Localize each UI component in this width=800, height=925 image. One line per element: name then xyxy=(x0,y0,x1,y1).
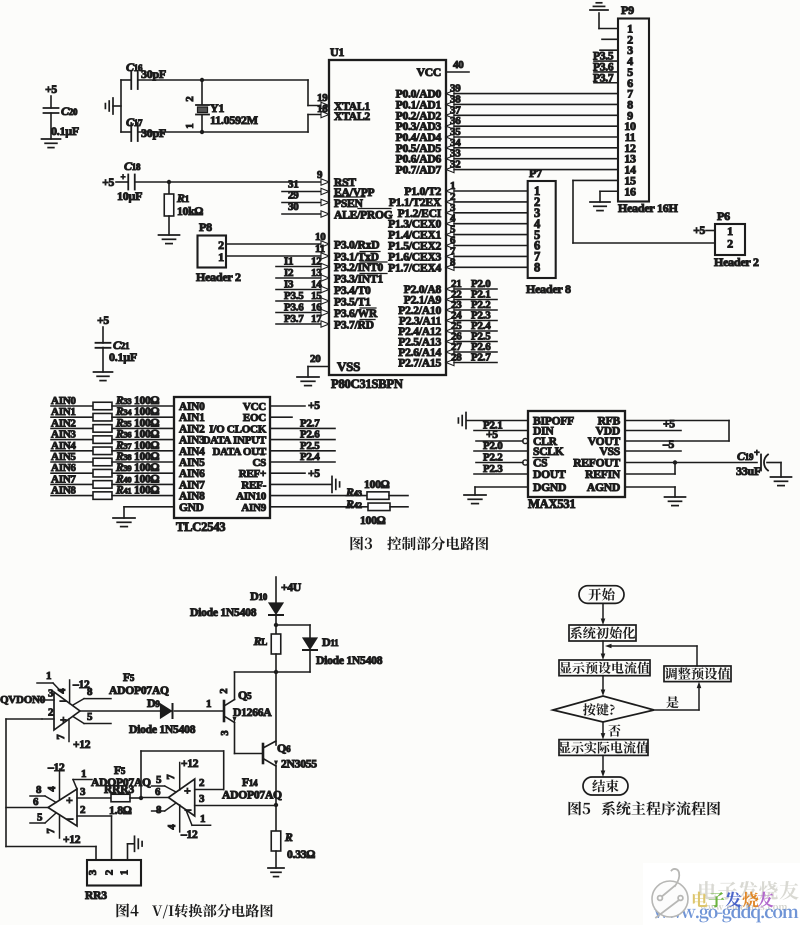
svg-text:+12: +12 xyxy=(181,758,199,770)
pin 20 VSS wire xyxy=(308,353,329,377)
svg-text:32: 32 xyxy=(450,159,461,171)
op-amp2 pin 1 xyxy=(73,768,92,789)
ground below P9 pin16 xyxy=(590,202,610,211)
svg-text:DATA OUT: DATA OUT xyxy=(212,446,266,458)
svg-text:P0.7/AD7: P0.7/AD7 xyxy=(396,164,442,177)
ground at BIPOFF xyxy=(458,413,466,429)
flowchart box adjust preset xyxy=(664,666,731,682)
wire VSS to -5 xyxy=(625,439,681,451)
ground below AGND xyxy=(665,497,686,506)
wire P1.1 to P7 pin 2 xyxy=(389,191,528,209)
wire node P2.3 to DOUT xyxy=(474,463,528,475)
svg-text:VCC: VCC xyxy=(417,66,441,79)
wire BIPOFF to ground xyxy=(467,420,528,422)
header P6 xyxy=(714,209,759,269)
diode D10 1N5408 xyxy=(190,589,283,619)
wire P1.0 to P7 pin 1 xyxy=(404,180,527,198)
pin 18 XTAL2 xyxy=(317,103,370,123)
wire P9 pin16 to ground xyxy=(600,191,618,202)
connector RR3 xyxy=(85,860,141,902)
svg-text:R1: R1 xyxy=(176,191,190,205)
pin 19 XTAL1 xyxy=(317,92,370,113)
flowchart end terminator xyxy=(583,777,628,795)
op-amp2 pin 6 output xyxy=(6,796,48,808)
watermark blue url xyxy=(654,904,798,922)
ground below C21 xyxy=(94,372,113,381)
wire node P3.6 to P9 pin 5 xyxy=(593,61,618,73)
svg-text:P6: P6 xyxy=(717,209,730,223)
svg-text:12: 12 xyxy=(311,256,322,268)
svg-text:R37 100Ω: R37 100Ω xyxy=(115,440,160,452)
svg-text:TLC2543: TLC2543 xyxy=(176,520,225,534)
wire P2.7 node xyxy=(398,352,497,370)
header P7 8 pins xyxy=(526,166,571,296)
svg-text:+5: +5 xyxy=(97,315,109,327)
op-amp3 pin 6 xyxy=(141,786,168,798)
resistor R40 100ohm on AIN7 xyxy=(51,473,174,488)
wire P0.7 to P9 pin 14 xyxy=(396,159,618,177)
svg-text:30pF: 30pF xyxy=(141,67,166,81)
op-amp3 pin 2 label xyxy=(199,777,205,789)
U1 P3 port labels xyxy=(334,239,387,332)
svg-text:AIN5: AIN5 xyxy=(179,457,205,469)
svg-text:1: 1 xyxy=(206,698,211,710)
resistor R39 100ohm on AIN6 xyxy=(51,462,174,477)
resistor R34 100ohm on AIN1 xyxy=(51,406,174,421)
op-amp2 pin 8 xyxy=(30,784,56,802)
svg-text:+12: +12 xyxy=(63,834,81,846)
svg-text:10µF: 10µF xyxy=(117,189,142,203)
svg-text:30pF: 30pF xyxy=(141,126,166,140)
ground at RR3 pin1 xyxy=(135,836,143,851)
svg-text:2: 2 xyxy=(48,707,54,719)
wire P9 pin2 stub xyxy=(602,38,618,40)
svg-text:P2.7/A15: P2.7/A15 xyxy=(398,357,441,370)
capacitor C18 10uF xyxy=(116,159,142,203)
svg-text:AIN9: AIN9 xyxy=(241,502,266,514)
svg-text:2: 2 xyxy=(219,688,230,693)
svg-text:17: 17 xyxy=(311,313,322,325)
svg-text:6: 6 xyxy=(33,796,39,808)
flow branch no xyxy=(601,722,621,740)
flow arrow to end xyxy=(601,755,606,777)
svg-text:XTAL2: XTAL2 xyxy=(334,110,370,123)
svg-text:C20: C20 xyxy=(61,104,78,118)
svg-text:REFIN: REFIN xyxy=(585,468,621,481)
flowchart start terminator xyxy=(579,586,624,604)
svg-text:15: 15 xyxy=(311,290,322,302)
svg-text:9: 9 xyxy=(317,169,323,181)
svg-text:Diode 1N5408: Diode 1N5408 xyxy=(316,654,383,667)
svg-text:P3.7/RD: P3.7/RD xyxy=(334,319,374,332)
wire junction to D11 xyxy=(276,625,310,638)
svg-text:+5: +5 xyxy=(693,225,705,237)
wire node P2.0 to SCLK xyxy=(474,440,528,452)
svg-text:AIN6: AIN6 xyxy=(179,468,205,480)
svg-text:0.33Ω: 0.33Ω xyxy=(287,848,315,861)
svg-text:ADOP07AQ: ADOP07AQ xyxy=(109,684,169,697)
transistor Q5 D1266A xyxy=(219,672,272,754)
svg-text:4: 4 xyxy=(167,824,178,830)
resistor R36 100ohm on AIN3 xyxy=(51,429,174,444)
wire Q6 emitter down xyxy=(274,766,278,831)
svg-text:1: 1 xyxy=(46,670,51,682)
svg-text:–5: –5 xyxy=(662,439,675,451)
svg-text:D11: D11 xyxy=(322,635,339,649)
wire P2.3 node xyxy=(399,310,497,328)
wire P8-2 to P3.0 xyxy=(226,231,329,247)
transistor Q6 2N3055 xyxy=(263,741,317,771)
svg-text:I3: I3 xyxy=(284,279,294,291)
svg-text:11.0592M: 11.0592M xyxy=(210,113,258,127)
svg-text:VSS: VSS xyxy=(337,359,360,374)
header P8 xyxy=(196,220,241,284)
svg-text:U1: U1 xyxy=(330,45,344,59)
svg-text:Header 2: Header 2 xyxy=(714,255,759,269)
svg-text:C18: C18 xyxy=(124,159,141,173)
svg-text:13: 13 xyxy=(311,267,322,279)
resistor R38 100ohm on AIN5 xyxy=(51,451,174,466)
op-amp1 pin 2 input xyxy=(42,707,54,720)
wire node I2 to P3.3 xyxy=(276,267,329,281)
op-amp2 pin 2 xyxy=(77,804,112,860)
svg-text:ALE/PROG: ALE/PROG xyxy=(334,209,393,222)
wire D10 to junction xyxy=(274,616,278,634)
svg-text:P2.7: P2.7 xyxy=(471,352,491,364)
wire TLC to node P2.7 xyxy=(270,417,335,429)
svg-text:2: 2 xyxy=(80,804,86,816)
resistor R42 100ohm on AIN9 xyxy=(270,497,408,527)
svg-text:+12: +12 xyxy=(73,739,91,751)
svg-text:2: 2 xyxy=(199,777,205,789)
resistor R37 100ohm on AIN4 xyxy=(51,440,174,455)
wire P2.4 node xyxy=(398,320,497,338)
resistor RRR3 1.8ohm xyxy=(104,783,143,817)
power +5 label C21 xyxy=(97,315,109,327)
svg-text:P7: P7 xyxy=(529,166,542,180)
svg-text:R36 100Ω: R36 100Ω xyxy=(115,429,160,441)
svg-text:ADOP07AQ: ADOP07AQ xyxy=(222,789,282,802)
watermark background box xyxy=(643,863,800,925)
svg-text:33uF: 33uF xyxy=(736,464,761,478)
IC TLC2543 body xyxy=(174,397,270,534)
svg-text:Header 16H: Header 16H xyxy=(618,201,679,215)
svg-text:D1266A: D1266A xyxy=(233,706,272,719)
wire RFB to VOUT loop xyxy=(625,421,729,442)
op-amp F5 ADOP07AQ lower xyxy=(48,764,151,826)
svg-text:AIN8: AIN8 xyxy=(179,491,205,503)
wire node P3.6 to P3.6 xyxy=(276,302,329,316)
op-amp3 pin 1 xyxy=(186,810,211,825)
svg-text:DOUT: DOUT xyxy=(533,468,566,481)
svg-text:2N3055: 2N3055 xyxy=(281,758,317,771)
wire RL D11 junction xyxy=(235,651,311,745)
op-amp2 pin 5 xyxy=(30,812,56,824)
op-amp1 pin 4 -12 xyxy=(57,679,90,704)
svg-text:Q6: Q6 xyxy=(277,741,291,755)
svg-text:8: 8 xyxy=(36,784,42,796)
op-amp3 pin 8 xyxy=(152,803,176,816)
caption figure 5 xyxy=(568,801,720,815)
svg-text:I2: I2 xyxy=(284,267,294,279)
svg-text:I/O CLOCK: I/O CLOCK xyxy=(209,423,266,435)
wire +5 to P6 pin1 xyxy=(693,225,715,237)
wire P0.5 to P9 pin 12 xyxy=(396,137,618,155)
svg-text:0.1µF: 0.1µF xyxy=(51,124,79,138)
TLC2543 left pin labels xyxy=(179,401,205,514)
svg-text:4: 4 xyxy=(47,786,58,792)
op-amp1 pin 3 input xyxy=(0,688,54,707)
svg-text:16: 16 xyxy=(311,302,322,314)
svg-text:P1.7/CEX4: P1.7/CEX4 xyxy=(388,261,441,274)
svg-text:+4U: +4U xyxy=(281,581,302,594)
svg-text:3: 3 xyxy=(80,786,86,798)
wire VDD to +5 xyxy=(625,419,681,431)
svg-text:2: 2 xyxy=(184,96,196,102)
pin 29 PSEN xyxy=(282,190,365,211)
svg-text:P9: P9 xyxy=(621,3,634,17)
svg-text:C19: C19 xyxy=(737,449,754,463)
wire P9 pin3 stub xyxy=(600,49,618,51)
svg-text:3: 3 xyxy=(48,688,54,700)
wire P1.2 to P7 pin 3 xyxy=(398,202,528,220)
wire P0.1 to P9 pin 8 xyxy=(396,93,618,111)
watermark logo circle xyxy=(652,869,688,918)
flow loop from adjust xyxy=(696,646,698,666)
flow arrow init to display xyxy=(601,641,606,660)
svg-text:+: + xyxy=(184,784,191,798)
svg-text:29: 29 xyxy=(288,190,299,202)
resistor RL xyxy=(253,634,281,654)
svg-text:+5: +5 xyxy=(102,177,114,189)
svg-text:4: 4 xyxy=(57,688,68,694)
wire P0.6 to P9 pin 13 xyxy=(396,148,618,166)
svg-text:3: 3 xyxy=(199,793,205,805)
pin 30 ALE/PROG xyxy=(282,201,393,222)
svg-text:2: 2 xyxy=(727,237,733,251)
wire P0.4 to P9 pin 11 xyxy=(396,126,618,144)
svg-text:I1: I1 xyxy=(284,256,293,268)
wire P1.4 to P7 pin 5 xyxy=(388,224,528,242)
svg-text:100Ω: 100Ω xyxy=(364,478,390,491)
ground at TLC REF- xyxy=(332,476,340,492)
wire REFIN xyxy=(625,473,675,475)
flow arrow start to init xyxy=(601,603,606,625)
svg-text:Header 8: Header 8 xyxy=(526,282,571,296)
svg-text:AIN4: AIN4 xyxy=(179,446,205,458)
svg-text:P2.6: P2.6 xyxy=(300,429,320,441)
svg-text:CS: CS xyxy=(252,457,266,469)
op-amp3 pin 4 -12 xyxy=(167,805,198,841)
resistor R41 100ohm on AIN8 xyxy=(51,485,174,500)
svg-text:R38 100Ω: R38 100Ω xyxy=(115,451,160,463)
svg-text:3: 3 xyxy=(220,730,231,735)
svg-text:18: 18 xyxy=(317,103,328,115)
svg-text:R35 100Ω: R35 100Ω xyxy=(115,417,160,429)
capacitor C19 33uF xyxy=(736,448,781,478)
svg-text:AIN10: AIN10 xyxy=(236,491,267,503)
svg-text:P80C31SBPN: P80C31SBPN xyxy=(331,377,403,391)
svg-text:VCC: VCC xyxy=(243,401,266,413)
svg-text:R34 100Ω: R34 100Ω xyxy=(115,406,160,418)
ground below DGND xyxy=(464,495,486,504)
svg-text:R41 100Ω: R41 100Ω xyxy=(115,485,160,497)
svg-text:Header 2: Header 2 xyxy=(196,270,241,284)
wire P1.7 to P7 pin 8 xyxy=(388,256,528,274)
svg-text:EOC: EOC xyxy=(243,412,266,424)
resistor R 0.33ohm xyxy=(271,831,315,868)
wire P1.6 to P7 pin 7 xyxy=(388,245,528,263)
power +4U rail xyxy=(276,577,302,603)
svg-text:GND: GND xyxy=(179,502,204,514)
svg-text:P2.5: P2.5 xyxy=(300,440,320,452)
svg-text:5: 5 xyxy=(37,812,43,824)
svg-text:Diode 1N5408: Diode 1N5408 xyxy=(129,723,196,736)
wire AGND to ground xyxy=(625,487,675,497)
wire RR3 pin1 to ground xyxy=(128,844,135,860)
svg-text:QVDON0: QVDON0 xyxy=(0,694,46,706)
caption figure 4 xyxy=(116,903,272,918)
diode D11 1N5408 xyxy=(303,635,383,667)
wire P2.2 node xyxy=(398,299,497,317)
capacitor C20 0.1uF xyxy=(44,96,80,139)
IC U1 P80C31SBPN body xyxy=(329,45,446,391)
svg-text:+5: +5 xyxy=(308,400,320,412)
watermark ghost text xyxy=(699,881,799,900)
svg-text:30: 30 xyxy=(288,201,299,213)
svg-text:14: 14 xyxy=(311,279,322,291)
svg-text:100Ω: 100Ω xyxy=(360,514,386,527)
wire TLC REF+ to +5 xyxy=(270,468,320,480)
ground below C19 xyxy=(771,477,792,486)
crystal Y1 11.0592M xyxy=(184,78,258,134)
svg-text:1: 1 xyxy=(81,768,86,780)
svg-text:+5: +5 xyxy=(45,84,57,96)
power +5 at C18 xyxy=(102,172,125,189)
watermark colored text xyxy=(693,892,774,908)
resistor R33 100ohm on AIN0 xyxy=(51,395,174,410)
ground below R xyxy=(268,868,284,877)
wire xtal to pins xyxy=(308,80,329,132)
svg-text:P2.3: P2.3 xyxy=(483,463,503,475)
resistor R43 100ohm on AIN10 xyxy=(270,478,408,499)
svg-text:1: 1 xyxy=(200,813,205,825)
svg-text:40: 40 xyxy=(453,59,464,71)
svg-text:DGND: DGND xyxy=(533,481,566,494)
svg-text:1.8Ω: 1.8Ω xyxy=(109,804,132,817)
svg-text:3: 3 xyxy=(87,869,99,875)
svg-text:P2.4: P2.4 xyxy=(300,451,320,463)
header P9 16 pins xyxy=(618,3,679,215)
ground below R1 xyxy=(159,235,180,244)
wire op1 pin2 feedback xyxy=(6,719,96,860)
svg-text:8: 8 xyxy=(156,804,162,816)
svg-text:7: 7 xyxy=(56,734,67,739)
svg-text:RR3: RR3 xyxy=(85,889,107,902)
ground below VSS xyxy=(297,377,319,386)
capacitor C16 30pF xyxy=(121,60,308,89)
svg-text:P3.7: P3.7 xyxy=(593,72,614,84)
svg-text:1: 1 xyxy=(184,123,196,129)
svg-text:8: 8 xyxy=(450,256,456,268)
op-amp F5 ADOP07AQ upper xyxy=(54,671,169,730)
wire left xtal vertical xyxy=(113,80,121,132)
svg-text:R: R xyxy=(284,831,293,844)
wire node P3.5 to P9 pin 4 xyxy=(593,51,618,63)
svg-text:R42: R42 xyxy=(345,497,362,511)
ground top of P9 xyxy=(590,3,618,29)
wire P1.5 to P7 pin 6 xyxy=(388,235,528,253)
wire TLC to node P2.6 xyxy=(270,429,335,441)
wire node P3.5 to P3.5 xyxy=(276,290,329,304)
svg-text:–12: –12 xyxy=(47,762,65,774)
svg-text:6: 6 xyxy=(155,786,161,798)
svg-text:F14: F14 xyxy=(242,776,258,789)
op-amp2 pin 7 +12 xyxy=(46,815,81,846)
svg-text:1: 1 xyxy=(119,870,131,876)
op-amp3 pin 5 xyxy=(152,774,176,792)
svg-text:P2.0: P2.0 xyxy=(483,440,503,452)
wire DGND to ground xyxy=(475,487,528,495)
flow arrow display to decision xyxy=(601,676,606,696)
svg-text:7: 7 xyxy=(46,828,57,833)
svg-text:Q5: Q5 xyxy=(238,688,252,702)
wire node P3.7 to P3.7 xyxy=(276,313,329,327)
TLC2543 GND pin wire xyxy=(124,507,174,518)
wire node I1 to P3.2 xyxy=(276,256,329,270)
svg-text:+5: +5 xyxy=(308,468,320,480)
svg-text:DATA INPUT: DATA INPUT xyxy=(203,435,267,447)
watermark small gray url xyxy=(700,903,787,911)
wire TLC to node P2.4 xyxy=(270,451,335,463)
svg-text:P3.6: P3.6 xyxy=(284,302,304,314)
svg-text:AIN2: AIN2 xyxy=(179,423,205,435)
svg-text:+: + xyxy=(66,793,73,807)
wire Q5 emitter to Q6 base xyxy=(235,753,264,755)
TLC2543 right pin labels xyxy=(203,401,267,514)
op-amp F14 ADOP07AQ xyxy=(168,776,282,816)
svg-text:Diode 1N5408: Diode 1N5408 xyxy=(190,606,257,619)
wire P2.1 node xyxy=(404,289,497,307)
op-amp1 pin 1 xyxy=(37,670,62,693)
op-amp2 pin 3 xyxy=(77,786,111,798)
wire TLC REF- to ground xyxy=(270,483,331,485)
op-amp1 pin 8 xyxy=(73,686,111,705)
wire node P2.2 to CS with bubble xyxy=(476,452,528,466)
svg-text:+: + xyxy=(754,448,760,459)
svg-text:+: + xyxy=(60,713,67,727)
svg-text:RRR3: RRR3 xyxy=(104,783,134,796)
wire D9 to Q5 base xyxy=(175,698,225,711)
wire +5 to CLR with bubble xyxy=(476,429,528,444)
svg-text:AIN3: AIN3 xyxy=(179,435,205,447)
wire node P3.7 to P9 pin 6 xyxy=(593,72,618,84)
svg-text:+: + xyxy=(121,172,126,182)
wire P0.0 to P9 pin 7 xyxy=(396,83,618,101)
svg-text:P8: P8 xyxy=(199,220,212,234)
pin 31 EA/VPP xyxy=(282,179,375,200)
svg-text:P3.7: P3.7 xyxy=(284,313,304,325)
op-amp3 pin 7 +12 xyxy=(166,758,199,790)
resistor R1 10k xyxy=(164,182,203,235)
flowchart decision key xyxy=(553,696,654,722)
capacitor C21 0.1uF xyxy=(96,327,138,372)
svg-text:1: 1 xyxy=(218,250,224,264)
wire P8-1 to P3.1 xyxy=(226,243,329,259)
svg-text:P2.7: P2.7 xyxy=(300,417,320,429)
svg-text:RL: RL xyxy=(253,635,267,648)
pin 9 RST xyxy=(317,169,356,189)
